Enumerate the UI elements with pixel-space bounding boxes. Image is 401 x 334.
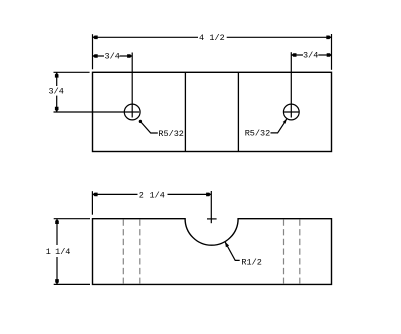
hole left centerline vertical [131, 53, 133, 118]
dimension 3/4 top-left [93, 55, 133, 57]
hidden line left a [122, 219, 124, 283]
svg-text:R1/2: R1/2 [241, 257, 261, 267]
hole right centerline horizontal [283, 111, 299, 113]
svg-text:1: 1 [46, 247, 51, 257]
hole right circle [283, 104, 299, 120]
leader R1/2 [225, 242, 240, 261]
svg-text:2: 2 [139, 191, 144, 201]
top view outline [93, 72, 332, 151]
hidden line right b [299, 219, 301, 283]
hidden line left b [139, 219, 141, 283]
notch center mark [207, 218, 217, 220]
svg-text:R5/32: R5/32 [158, 129, 184, 139]
hole right centerline vertical [290, 52, 292, 117]
dimension 1 1/4 [54, 219, 90, 285]
svg-text:4: 4 [199, 33, 204, 43]
leader R5/32 right [271, 119, 288, 133]
hidden line right a [283, 219, 285, 283]
leader R5/32 left [140, 121, 157, 133]
dimension 3/4 top-right [291, 54, 332, 56]
notch projection line left [184, 72, 186, 151]
svg-text:3/4: 3/4 [105, 51, 120, 61]
svg-text:1/4: 1/4 [150, 191, 165, 201]
svg-text:1/2: 1/2 [209, 33, 224, 43]
bottom view outline with notch [93, 219, 332, 285]
dimension 3/4 vertical left [54, 72, 140, 112]
dimension 2 1/4 [92, 191, 211, 223]
svg-text:3/4: 3/4 [49, 87, 64, 97]
svg-text:3/4: 3/4 [303, 50, 318, 60]
svg-text:1/4: 1/4 [55, 247, 70, 257]
dimension 4 1/2 [93, 34, 332, 70]
svg-text:R5/32: R5/32 [245, 129, 271, 139]
notch projection line right [237, 72, 239, 151]
hole left circle [124, 104, 140, 120]
